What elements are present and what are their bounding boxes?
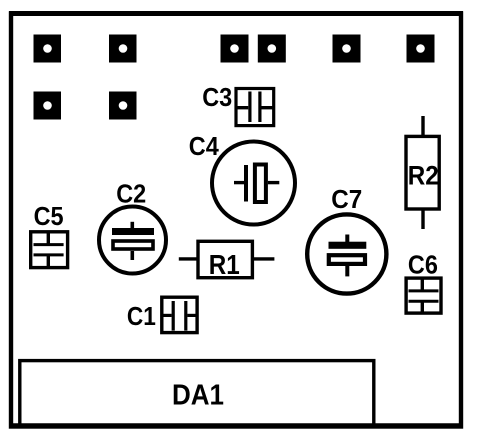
svg-text:DA1: DA1 — [172, 380, 224, 412]
capacitor C7 — [307, 214, 386, 293]
svg-text:C1: C1 — [127, 301, 156, 331]
pad 5 (row 1) — [333, 35, 361, 63]
pad 2 (row 1) — [109, 35, 137, 63]
pad 4 (row 1) — [258, 35, 286, 63]
capacitor C2 — [99, 207, 166, 274]
resistor R2 leads — [421, 116, 424, 136]
svg-text:C3: C3 — [202, 82, 232, 112]
pad 6 (row 1) — [407, 35, 435, 63]
resistor R2 — [406, 136, 439, 209]
svg-text:C6: C6 — [408, 250, 438, 280]
pad 1 (row 1) — [34, 35, 62, 63]
pad 3 (row 1) — [221, 35, 249, 63]
svg-text:C5: C5 — [34, 201, 64, 231]
resistor R1 — [198, 241, 252, 277]
resistor R1 lead left — [179, 257, 197, 260]
capacitor C6 — [406, 278, 441, 313]
capacitor C5 — [31, 232, 68, 268]
svg-text:R2: R2 — [408, 161, 439, 191]
IC DA1 — [20, 361, 374, 427]
capacitor C3 — [236, 89, 274, 126]
pad 8 (row 2) — [109, 92, 137, 120]
resistor R1 lead right — [252, 257, 274, 260]
svg-text:C2: C2 — [116, 179, 146, 209]
svg-text:R1: R1 — [209, 249, 240, 280]
capacitor C4 — [212, 142, 295, 225]
capacitor C1 — [162, 297, 197, 332]
svg-text:C7: C7 — [331, 184, 362, 214]
svg-text:C4: C4 — [189, 131, 219, 161]
pad 7 (row 2) — [34, 92, 62, 120]
